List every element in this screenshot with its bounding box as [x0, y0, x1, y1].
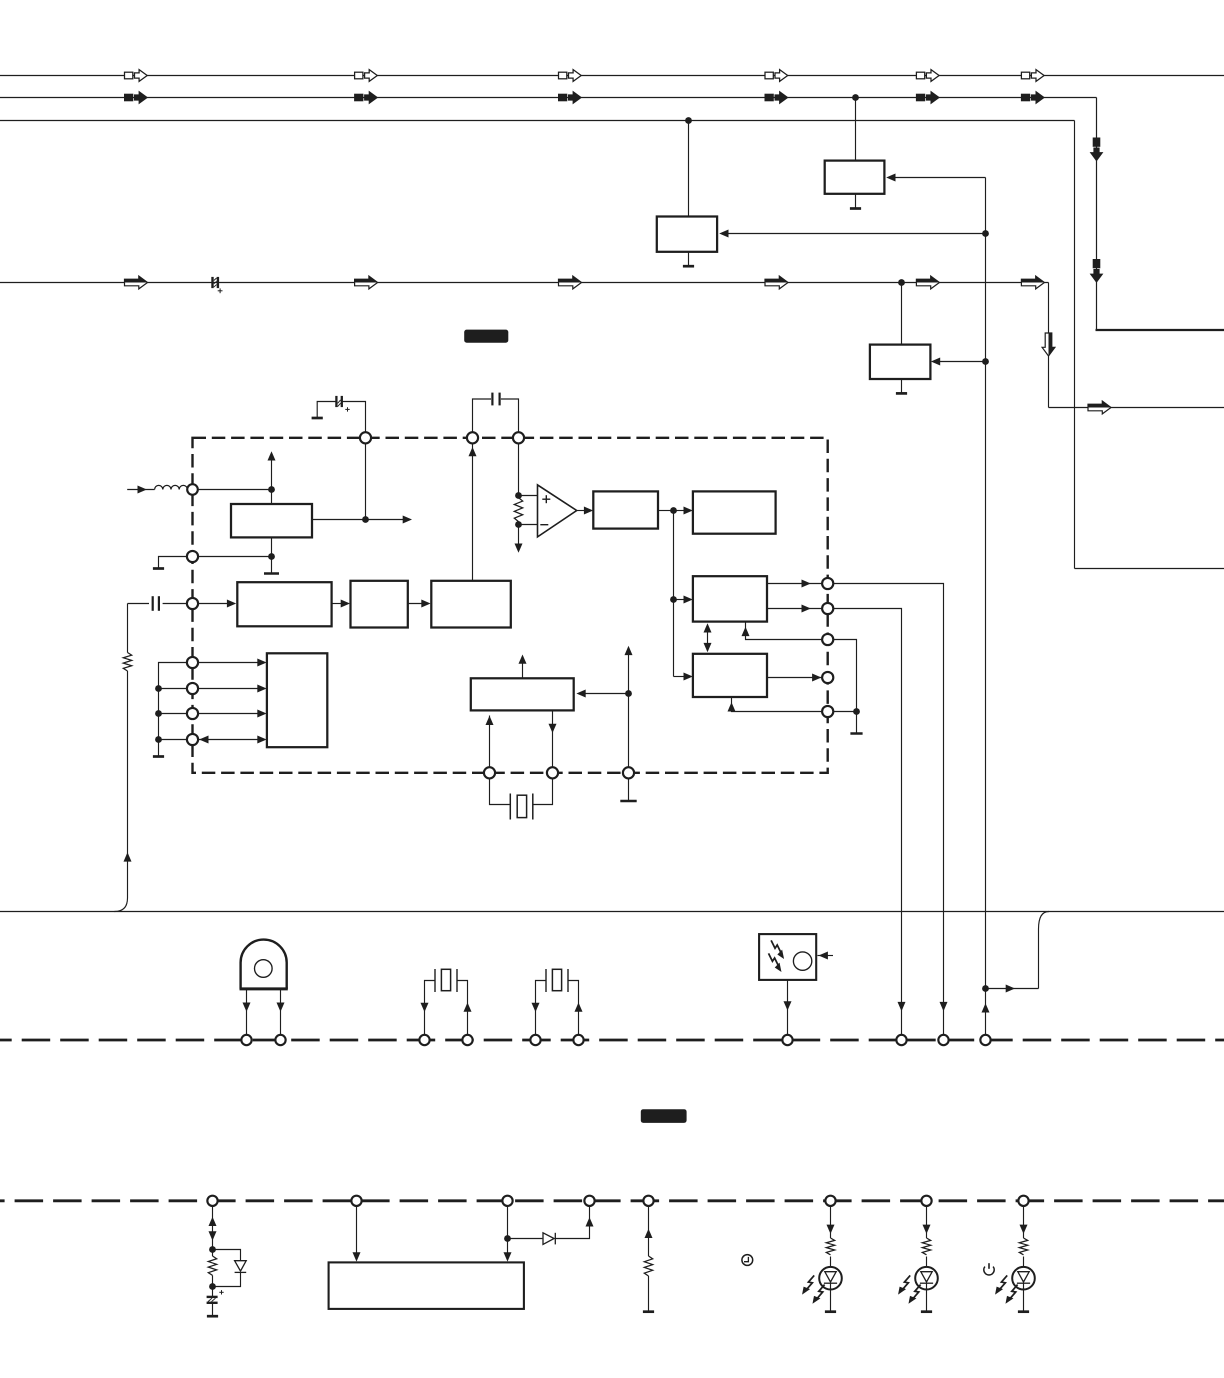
filled flow arrow on L2 #1 — [125, 92, 148, 104]
wire up w/ arrow (internal) — [268, 451, 276, 489]
wire CN2-5 w/ up arrow + resistor R2b — [644, 1206, 652, 1312]
wire I1 right output w/ arrow — [312, 516, 412, 524]
capacitor C3 (input coupling at P3) — [128, 596, 188, 611]
connector pin CN1-5 — [530, 1035, 540, 1045]
wire P4 into box I9 — [198, 659, 267, 667]
wire R1 to vertical x=943 — [833, 584, 948, 1035]
wire I2 to I3 w/ arrow — [332, 600, 350, 608]
wire into I10 right side — [576, 690, 628, 698]
LED D4 stack (timer) — [800, 1206, 842, 1312]
ground under box A — [850, 194, 861, 209]
IC pin T3 — [513, 432, 524, 443]
wire I10 top arrow (free end) — [519, 655, 527, 679]
capacitor C2 (across IC pins T2-T3) — [473, 393, 519, 433]
wire CN2-1 down (bidirectional arrows) — [209, 1206, 217, 1249]
wire pin R3 feedback into I7 — [742, 622, 823, 640]
wire L1: top bus line (open-arrow signal) — [0, 75, 1224, 77]
wire vertical I5-output bus — [673, 511, 675, 677]
wire D1 anode to pin — [243, 989, 251, 1035]
crystal X1 (below IC) — [490, 778, 553, 819]
junction T1 line / I1 output — [362, 516, 369, 523]
wire pin B1 up into I10 — [486, 716, 494, 768]
LED D5 stack — [896, 1206, 938, 1312]
wire L4 continuation to right edge — [1049, 407, 1224, 409]
label block 2 (solid black) — [464, 330, 508, 343]
wire I7 out2 to pin R2 — [767, 605, 822, 613]
box I8 (internal block) — [693, 654, 767, 697]
wire I1 bottom to termination — [271, 537, 273, 573]
double arrow between I7 and I8 — [704, 623, 712, 652]
wire P6 tie — [159, 713, 188, 715]
ceramic filter CF1 — [421, 969, 472, 1035]
clock icon (timer symbol) — [742, 1255, 753, 1266]
connector pin CN2-7 — [921, 1196, 931, 1206]
wire junction down into box I1 — [271, 490, 273, 505]
wire audio bus (solid line y=911.5) — [0, 911, 1224, 913]
box I9 (internal block) — [267, 653, 327, 747]
wire P6 into box I9 — [198, 710, 267, 718]
shadowed flow arrow on L4 #3 — [559, 276, 582, 289]
LED D6 stack (standby) — [993, 1206, 1035, 1312]
connector pin CN1-4 — [462, 1035, 472, 1045]
IC pin B1 — [484, 767, 495, 778]
wire T1 down to I1 output line — [365, 443, 367, 519]
ground at P2 — [153, 567, 164, 570]
connector pin CN2-1 — [207, 1196, 217, 1206]
junction R-D bottom — [209, 1283, 216, 1290]
wire osc feed vertical w/ up arrow — [625, 646, 633, 768]
wire I10 down to pin B2 — [549, 710, 557, 767]
filled flow arrow on L2 #2 — [355, 92, 378, 104]
shadowed flow arrow on L4 #4 — [765, 276, 788, 289]
wire I7 out1 to pin R1 — [767, 580, 822, 588]
wire from L3 junction down to box B — [688, 121, 690, 217]
IC pin B3 — [623, 767, 634, 778]
wire feed into box C right side — [931, 358, 986, 366]
ground under R2b — [643, 1310, 654, 1313]
IC pin P4 — [187, 657, 198, 668]
photo detector U3 (remote sensor box) — [759, 934, 816, 980]
LED D1 (dome indicator) — [240, 940, 288, 989]
IC pin R5 — [822, 706, 833, 717]
wire L2 heavy continuation to right edge — [1096, 329, 1224, 331]
ceramic filter CF2 — [532, 969, 583, 1035]
filled flow arrow on L2 vertical #2 — [1091, 260, 1103, 283]
wire from L2 junction down to box A — [855, 98, 857, 161]
U3 lens circle — [793, 952, 811, 970]
wire L3 continuation to right edge — [1075, 568, 1224, 570]
connector pin CN2-8 — [1018, 1196, 1028, 1206]
diode D3 to pin CN2-4 — [508, 1206, 594, 1244]
junction P5 tie — [155, 685, 162, 692]
inductor L-in (RF input coil) — [127, 485, 187, 493]
wire feed into box A right side — [886, 174, 985, 182]
wire - input to op-amp — [519, 524, 538, 526]
junction on L3 feeding box B — [685, 117, 692, 124]
connector row CN1 (dashed) — [0, 1039, 1224, 1042]
wire P3 into box I2 w/ arrow — [198, 600, 236, 608]
IC pin R4 — [822, 672, 833, 683]
ground for C1 — [312, 417, 323, 420]
IC pin R3 — [822, 634, 833, 645]
wire D1 cathode to pin — [277, 989, 285, 1035]
connector pin CN1-3 — [419, 1035, 429, 1045]
filled flow arrow on L2 #3 — [559, 92, 582, 104]
open flow arrow on L1 #1 — [125, 70, 148, 82]
junction feed branch to audio line — [982, 985, 989, 992]
termination bar under B3 — [620, 800, 636, 803]
ground under box C — [896, 379, 907, 393]
wire vertical feed bus x=986 from IC pin — [985, 178, 987, 1035]
wire I5 out to junction — [658, 510, 674, 512]
connector row CN2 (dashed) — [0, 1199, 1224, 1202]
wire pin R3 to bias bar — [833, 640, 857, 712]
wire L2: second bus line — [0, 98, 1097, 331]
connector pin CN1-2 — [275, 1035, 285, 1045]
LED D1 lens circle — [254, 960, 272, 978]
wire I8 out to pin R4 — [767, 674, 822, 682]
shadowed flow arrow on L4 #2 — [355, 276, 378, 289]
IC pin P6 — [187, 708, 198, 719]
wire CN2-3 down into power block — [504, 1206, 512, 1262]
capacitor C4 (electrolytic to gnd) — [207, 1287, 224, 1317]
IC U1 dashed outline — [193, 438, 828, 773]
box C (blank function block) — [870, 345, 931, 379]
power icon (standby symbol) — [984, 1263, 994, 1275]
wire I4 top up to pin T2 — [469, 443, 477, 581]
shadowed flow arrow on L4 #5 — [916, 276, 939, 289]
resistor R-osc (vertical) — [514, 498, 522, 522]
wire B3 to termination — [628, 778, 630, 801]
wire T3 down to resistor — [518, 443, 520, 495]
wire junction to box I6 w/ arrow — [674, 507, 693, 515]
open flow arrow on L1 #4 — [765, 70, 788, 82]
open flow arrow on L1 #6 — [1021, 70, 1044, 82]
connector pin CN1-1 — [241, 1035, 251, 1045]
filled flow arrow on L2 #5 — [916, 92, 939, 104]
junction CN2-3/diode — [504, 1235, 511, 1242]
IC pin P1 (RF in) — [187, 484, 198, 495]
junction at op-amp + input — [515, 492, 522, 499]
connector pin CN2-4 — [584, 1196, 594, 1206]
wire corner into box I8 w/ arrow — [674, 673, 693, 681]
up arrow on feed bus x=986 — [982, 1003, 990, 1012]
wire op-amp out to box I5 w/ arrow — [577, 507, 594, 515]
connector pin CN2-2 — [351, 1196, 361, 1206]
wire P2 external to ground — [159, 557, 188, 569]
IC pin T2 — [467, 432, 478, 443]
box I1 (internal block) — [231, 504, 312, 537]
wire U3 output to pin — [784, 980, 792, 1035]
ground under C4 — [207, 1315, 218, 1318]
wire into U3 right side — [818, 952, 834, 960]
connector pin CN1-7 — [782, 1035, 792, 1045]
wire P1 to internal junction — [198, 489, 272, 491]
wire feed into box B right side — [719, 230, 985, 238]
junction P7 tie — [155, 736, 162, 743]
wire P7 into box I9 (bidirectional) — [198, 736, 267, 744]
junction on L2 feeding box A — [852, 94, 859, 101]
shadowed flow arrow on L4 #1 — [125, 276, 148, 289]
wire into box I7 w/ arrow — [674, 596, 693, 604]
box PB (bottom block) — [329, 1262, 524, 1309]
wire R2 to vertical x=901 — [833, 609, 906, 1035]
shadowed right arrow on L4 lower run — [1088, 401, 1111, 414]
wire external tie of P4-P7 — [159, 663, 188, 757]
connector pin CN1-9 — [938, 1035, 948, 1045]
junction I5 output — [670, 507, 677, 514]
IC pin R1 — [822, 578, 833, 589]
box A (blank function block) — [825, 161, 885, 194]
wire P7 tie — [159, 739, 188, 741]
wire from L4 junction down to box C — [901, 283, 903, 345]
junction osc feed — [625, 690, 632, 697]
IC pin P2 — [187, 551, 198, 562]
wire + input to op-amp — [519, 495, 538, 497]
junction feed/boxB — [982, 230, 989, 237]
termination bar (bias) — [850, 712, 862, 734]
box I10 (oscillator block) — [471, 678, 574, 710]
IC pin B2 — [547, 767, 558, 778]
ground for pin tie line — [153, 755, 164, 758]
box I6 (internal block) — [693, 491, 776, 533]
junction bias — [853, 708, 860, 715]
junction feed/boxC — [982, 358, 989, 365]
wire branch curving onto horizontal line — [986, 912, 1050, 993]
open flow arrow on L1 #5 — [916, 70, 939, 82]
label block (solid black) — [641, 1109, 687, 1123]
connector pin CN2-5 — [643, 1196, 653, 1206]
wire P5 tie — [159, 688, 188, 690]
box I4 (internal block) — [431, 581, 511, 628]
capacitor C1 (electrolytic to gnd at IC top) — [317, 396, 365, 433]
U3 incident light arrows — [766, 938, 787, 973]
open flow arrow on L1 #3 — [559, 70, 582, 82]
wire L4: fourth bus line — [0, 283, 1049, 408]
wire L3: third bus line — [0, 121, 1075, 569]
connector pin CN1-10 — [980, 1035, 990, 1045]
IC pin T1 — [360, 432, 371, 443]
filled flow arrow on L2 #4 — [765, 92, 788, 104]
junction at mixer input — [268, 486, 275, 493]
connector pin CN2-6 — [825, 1196, 835, 1206]
IC pin R2 — [822, 603, 833, 614]
diode D2 (parallel w/ R1b) — [213, 1250, 247, 1287]
junction R-D top — [209, 1246, 216, 1253]
wire pin R5 feedback into I8 — [728, 697, 823, 712]
op-amp U2 (comparator triangle) — [538, 485, 577, 537]
resistor R1b (vertical) — [208, 1250, 216, 1287]
junction P6 tie — [155, 710, 162, 717]
shadowed down arrow on L4 vertical — [1042, 333, 1055, 356]
wire pin R5 to bias bar — [833, 711, 857, 713]
box I3 (internal block) — [351, 581, 408, 628]
box I2 (internal block) — [237, 582, 331, 626]
wire AGC feedback (x=127.5 vertical w/ resistor) — [114, 604, 131, 912]
junction on L4 feeding box C — [898, 279, 905, 286]
wire P5 into box I9 — [198, 685, 267, 693]
ground under box B — [683, 252, 694, 266]
junction P2 line — [268, 553, 275, 560]
IC pin P3 — [187, 598, 198, 609]
open flow arrow on L1 #2 — [355, 70, 378, 82]
shadowed flow arrow on L4 #6 — [1021, 276, 1044, 289]
IC pin P7 — [187, 734, 198, 745]
IC pin P5 — [187, 683, 198, 694]
filled flow arrow on L2 #6 — [1021, 92, 1044, 104]
capacitor C-L4 (series electrolytic in L4) — [213, 277, 223, 293]
termination bar under I1 — [264, 572, 279, 575]
connector pin CN1-6 — [573, 1035, 583, 1045]
wire I3 to I4 w/ arrow — [408, 600, 431, 608]
connector pin CN2-3 — [502, 1196, 512, 1206]
box B (blank function block) — [657, 217, 717, 252]
junction at op-amp - input — [515, 521, 522, 528]
wire P2 to junction — [198, 556, 272, 558]
wire CN2-2 into power block — [353, 1206, 361, 1262]
box I5 (internal block) — [593, 491, 658, 528]
junction to box I7 — [670, 596, 677, 603]
box I7 (internal block) — [693, 576, 767, 621]
connector pin CN1-8 — [896, 1035, 906, 1045]
wire down w/ arrow (free end) — [515, 525, 523, 553]
filled flow arrow on L2 vertical #1 — [1091, 138, 1103, 161]
